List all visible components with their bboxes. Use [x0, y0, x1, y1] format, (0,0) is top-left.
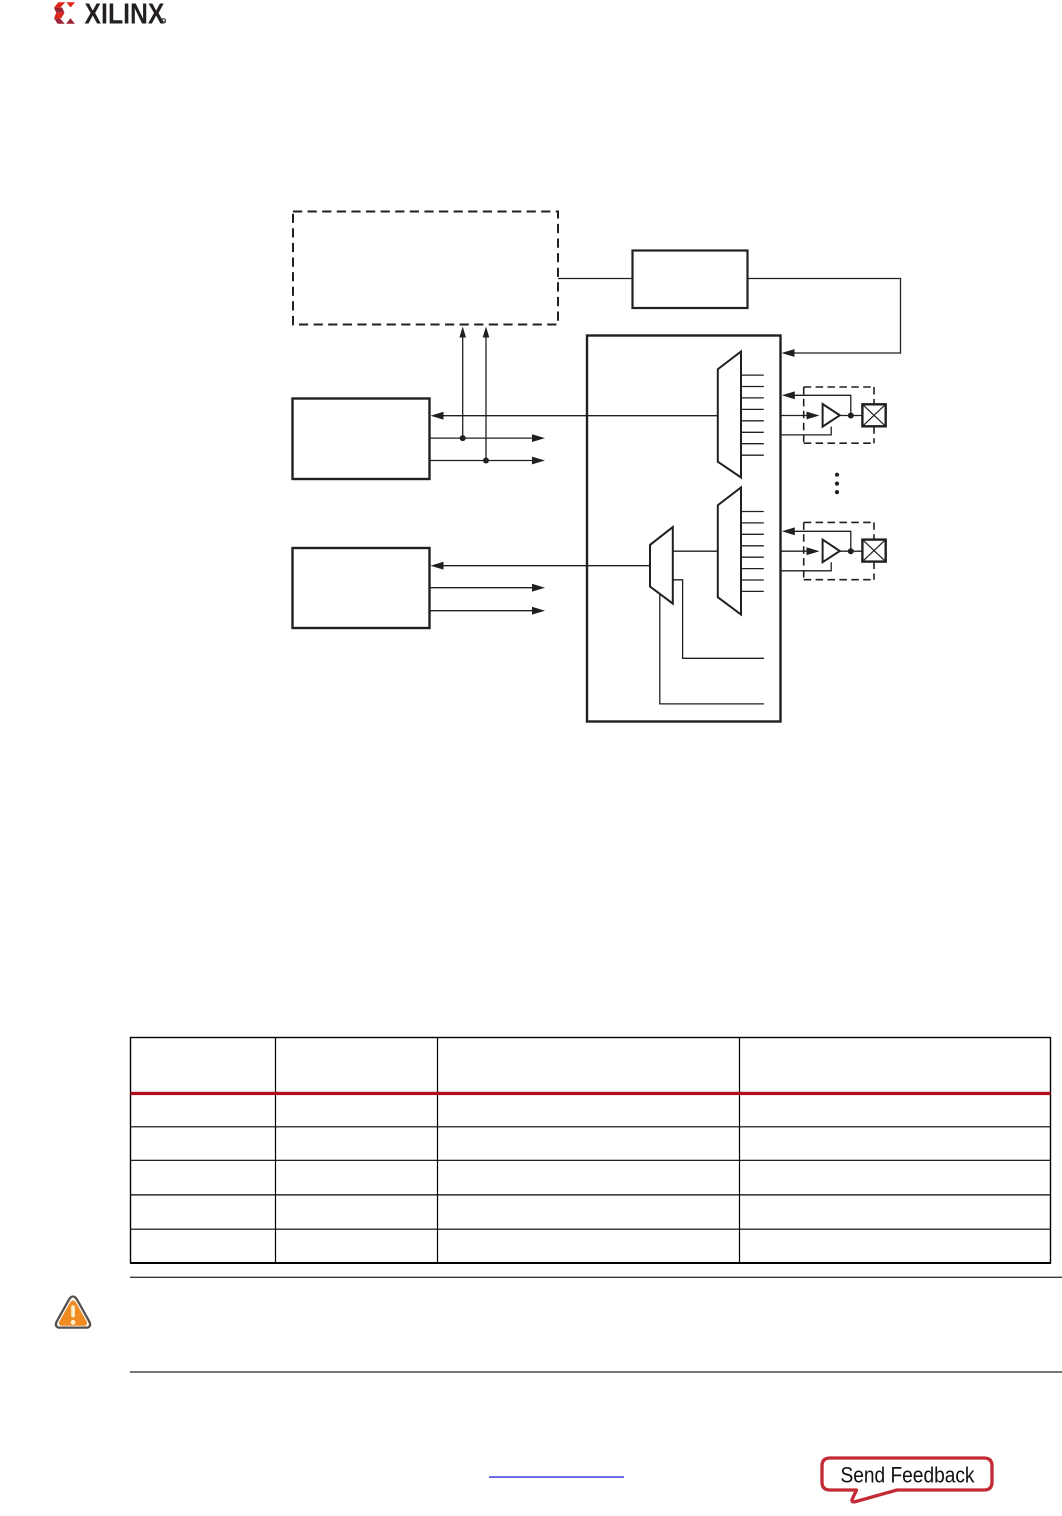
wire buffer to pad (top): [840, 415, 863, 417]
clock box B1: [633, 251, 748, 309]
wire buffer to pad (bottom): [840, 550, 863, 552]
L-wire from M3 select down right: [673, 580, 764, 659]
big block BB: [587, 336, 781, 722]
svg-text:Send Feedback: Send Feedback: [840, 1463, 975, 1488]
Xilinx logo mark: [54, 2, 75, 24]
dashed block D1: [293, 212, 558, 325]
wire M2 output to M3: [673, 550, 718, 552]
junction dot on lower L1 wire: [483, 458, 489, 464]
svg-text:XILINX: XILINX: [85, 0, 165, 30]
node dot (bottom): [848, 548, 854, 554]
footnote rule under table: [130, 1277, 1062, 1278]
wire L2 out upper: [430, 584, 546, 592]
output wire BB to buffer T2: [781, 547, 820, 555]
ellipsis dots between IOBs: [835, 473, 839, 495]
wire from D1 to clock box: [558, 278, 633, 280]
node dot (top): [848, 413, 854, 419]
bottom rule: [130, 1371, 1062, 1372]
svg-text:R: R: [162, 19, 166, 25]
junction dot on upper L1 wire: [460, 435, 466, 441]
IO pad P2: [862, 540, 885, 562]
mux M2: [718, 487, 741, 614]
output wire BB to buffer T1: [781, 412, 820, 420]
output buffer T1: [823, 404, 840, 427]
vertical wire to D1 right: [483, 327, 490, 461]
IO pad P1: [862, 404, 885, 426]
feedback wire from pad node to BB (bottom): [782, 527, 851, 551]
mux M1 input stubs: [741, 375, 764, 455]
Send Feedback button: [822, 1458, 992, 1502]
wire L2 out lower: [430, 607, 546, 615]
tristate wire (bottom): [781, 562, 832, 571]
wire from B1 around to big block: [748, 279, 901, 357]
wire L1 out upper: [430, 434, 546, 442]
Xilinx wordmark XILINX: [85, 0, 166, 30]
mux M1: [718, 352, 741, 478]
table grid: [131, 1038, 1051, 1264]
table header red rule: [131, 1092, 1051, 1095]
register box L2: [293, 548, 430, 628]
mux M2 input stubs: [741, 512, 764, 592]
wire mux M3 output to L2: [431, 562, 651, 570]
tristate wire (top): [781, 427, 832, 435]
vertical wire to D1 left: [459, 327, 466, 439]
L-wire from M3 bottom down right: [660, 595, 764, 704]
register box L1: [293, 399, 430, 480]
IOB dashed box DB1: [804, 387, 874, 443]
output buffer T2: [823, 540, 840, 563]
mux M3: [650, 527, 673, 604]
caution icon: [56, 1297, 90, 1328]
footer link underline: [489, 1476, 624, 1477]
wire L1 out lower: [430, 457, 546, 465]
IOB dashed box DB2: [804, 522, 874, 579]
wire mux M1 output to L1: [431, 412, 718, 420]
feedback wire from pad node to BB (top): [782, 391, 851, 415]
